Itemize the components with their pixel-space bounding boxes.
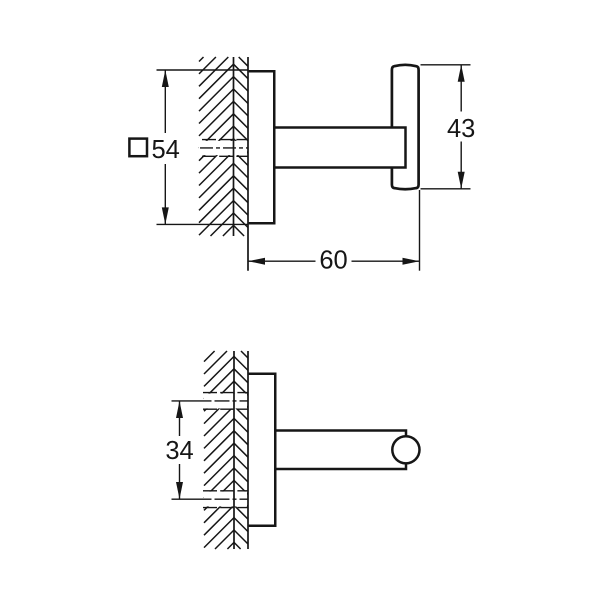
svg-text:54: 54 [152,136,180,164]
svg-text:60: 60 [319,247,347,275]
svg-text:43: 43 [447,115,475,143]
svg-text:34: 34 [165,437,193,465]
